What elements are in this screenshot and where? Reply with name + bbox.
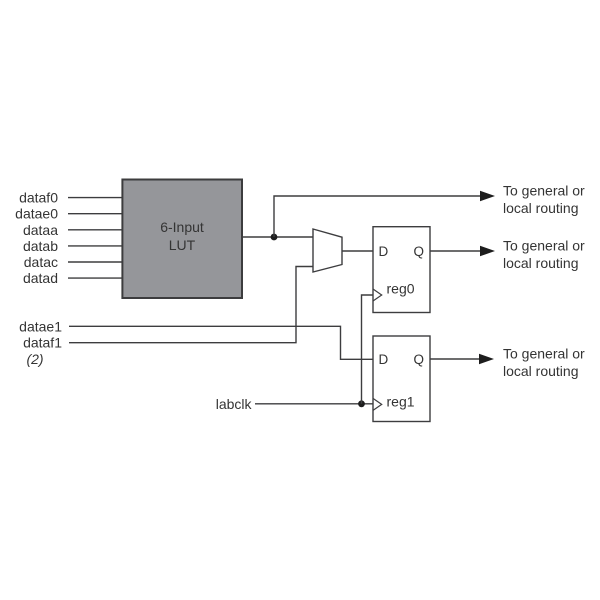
wire dataf0 [68,197,122,199]
svg-text:datad: datad [23,270,58,286]
wire dataf1 to mux [69,267,313,343]
svg-text:dataf0: dataf0 [19,190,58,206]
svg-text:reg1: reg1 [387,393,415,409]
svg-text:Q: Q [413,244,424,259]
junction dot LUT output [271,234,278,241]
svg-text:To general or: To general or [503,346,585,362]
wire reg0 Q to routing [430,250,481,252]
wire datae1 to reg1 D [69,326,373,359]
svg-text:datae0: datae0 [15,206,58,222]
svg-text:reg0: reg0 [387,281,415,297]
svg-text:labclk: labclk [216,396,253,412]
svg-text:To general or: To general or [503,183,585,199]
svg-text:6-Input: 6-Input [160,219,204,235]
wire datad [68,277,122,279]
svg-text:local routing: local routing [503,363,579,379]
register reg0 [373,227,430,313]
wire labclk riser to reg0 clock [362,295,374,404]
register reg1 [373,336,430,422]
svg-text:LUT: LUT [169,237,196,253]
svg-text:datab: datab [23,238,58,254]
svg-text:D: D [379,244,389,259]
label To general or local routing (top) [503,183,585,216]
label To general or local routing (middle) [503,238,585,271]
junction dot labclk [358,400,365,407]
wire LUT output riser to top routing [274,196,481,237]
wire dataa [68,229,122,231]
svg-text:datae1: datae1 [19,318,62,334]
svg-text:local routing: local routing [503,255,579,271]
svg-text:To general or: To general or [503,238,585,254]
arrowhead reg1 routing [479,354,494,365]
wire labclk to reg1 clock [255,403,373,405]
reg0 clock input triangle [373,289,382,301]
svg-text:local routing: local routing [503,200,579,216]
wire datac [68,261,122,263]
wire reg1 Q to routing [430,358,480,360]
label To general or local routing (bottom) [503,346,585,379]
wire mux output to reg0 D [342,250,373,252]
svg-text:datac: datac [24,254,58,270]
reg1 clock input triangle [373,398,382,410]
wire LUT output to mux [242,236,313,238]
svg-text:Q: Q [413,352,424,367]
svg-text:D: D [379,352,389,367]
arrowhead top routing [480,191,495,202]
mux [313,229,342,272]
svg-text:dataf1: dataf1 [23,335,62,351]
wire datab [68,245,122,247]
wire datae0 [68,213,122,215]
svg-text:dataa: dataa [23,222,58,238]
arrowhead reg0 routing [480,246,495,257]
6-input LUT block [122,180,242,299]
svg-text:(2): (2) [26,351,43,367]
